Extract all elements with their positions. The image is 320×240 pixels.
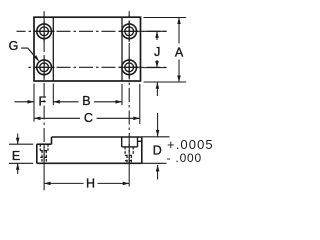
- center line solid segment right (side view): [128, 144, 130, 165]
- hole top-right outer: [122, 24, 137, 39]
- side view slot left wall: [121, 137, 123, 147]
- dim D top outside arrow: [157, 113, 159, 136]
- crosshair hole top-right: [119, 30, 140, 32]
- center line vertical right column: [128, 12, 130, 163]
- dim A bottom arrowhead: [177, 76, 181, 83]
- svg-text:F: F: [38, 95, 46, 109]
- svg-text:J: J: [154, 45, 160, 59]
- gap arrow below top view pointing up: [156, 82, 158, 96]
- crosshair hole bottom-right: [119, 66, 140, 68]
- dim D bottom extension line: [142, 162, 167, 164]
- G leader line: [21, 48, 38, 60]
- dim H right extension line: [128, 165, 130, 187]
- dim J top arrowhead: [155, 31, 159, 38]
- dim A line lower segment: [178, 60, 180, 83]
- center line horizontal top row: [17, 30, 167, 32]
- dim A top arrowhead: [177, 18, 181, 25]
- dim J bottom arrowhead: [155, 61, 159, 68]
- dim J bottom extension solid segment: [143, 67, 167, 69]
- dim D bottom outside arrow: [157, 165, 159, 180]
- dim H line left segment: [44, 182, 83, 184]
- dim A line upper segment: [178, 18, 180, 44]
- dim B arrowhead at left pointing left: [53, 100, 60, 104]
- dim D top extension line: [142, 136, 170, 138]
- dim A bottom extension line: [144, 81, 187, 83]
- dim H right arrowhead: [123, 182, 130, 186]
- svg-text:C: C: [84, 111, 93, 125]
- svg-text:D: D: [153, 143, 162, 157]
- dim H left arrowhead: [44, 182, 51, 186]
- side view right ledge: [138, 140, 142, 142]
- dim E bottom extension line: [9, 162, 33, 164]
- dim B right arrowhead: [116, 100, 123, 104]
- dim B right extension line: [121, 84, 123, 105]
- crosshair hole bottom-left: [34, 66, 55, 68]
- dim C right arrowhead: [133, 117, 140, 121]
- hole bottom-left inner: [40, 63, 49, 72]
- hole top-right inner: [125, 27, 134, 36]
- hole bottom-left outer: [37, 60, 52, 75]
- dim C left arrowhead: [34, 117, 41, 121]
- right slot edge line (top view): [121, 17, 123, 81]
- hole bottom-right inner: [125, 63, 134, 72]
- center line stub above rect left: [43, 11, 45, 16]
- left step edge line (top view): [52, 17, 54, 81]
- dim B line left segment: [53, 101, 78, 103]
- hidden hole right bottom row: [125, 160, 133, 162]
- dim C right extension line: [139, 84, 141, 124]
- hole top-left outer: [37, 24, 52, 39]
- side view slot floor: [122, 146, 138, 148]
- center line vertical left column: [43, 12, 45, 163]
- dim B line right segment: [94, 101, 122, 103]
- dim A top extension line: [144, 17, 187, 19]
- center line stub above rect right: [128, 11, 130, 16]
- dim E bottom outside arrow: [17, 163, 19, 174]
- svg-text:E: E: [12, 149, 20, 163]
- hole top-left inner: [40, 27, 49, 36]
- dim C line left segment: [34, 117, 80, 119]
- side view left step: [51, 137, 53, 144]
- dim F right extension line: [52, 84, 54, 106]
- dim F left extension line: [33, 84, 35, 106]
- top view outline: [34, 17, 141, 81]
- hidden hole right inner: [126, 155, 128, 162]
- dim J line lower segment: [156, 60, 158, 68]
- dim F outside stem left: [15, 101, 35, 103]
- side view left tab top: [37, 143, 52, 145]
- dim C line right segment: [97, 117, 140, 119]
- hidden counterbore left outer: [39, 144, 41, 150]
- svg-text:H: H: [86, 176, 95, 190]
- dim E top extension line: [9, 143, 33, 145]
- hidden hole left inner: [41, 151, 43, 163]
- dim H left extension line: [43, 164, 45, 191]
- G leader arrowhead: [34, 55, 40, 62]
- side view right edge: [141, 137, 143, 163]
- dim C left extension continuation: [33, 105, 35, 122]
- side view bottom: [37, 162, 142, 164]
- dim F left arrowhead pointing right: [28, 100, 35, 104]
- center line solid segment left (side view): [43, 146, 45, 162]
- hidden counterbore right outer: [124, 147, 126, 156]
- svg-text:- .000: - .000: [167, 151, 203, 165]
- svg-text:B: B: [82, 94, 90, 108]
- dim J top extension solid segment: [143, 30, 167, 32]
- side view left edge: [36, 144, 38, 163]
- hole bottom-right outer: [122, 60, 137, 75]
- side view slot right wall: [137, 137, 139, 147]
- svg-text:A: A: [175, 46, 184, 60]
- svg-text:+.0005: +.0005: [167, 137, 214, 152]
- crosshair hole top-left: [34, 30, 55, 32]
- svg-text:G: G: [9, 39, 19, 53]
- side view top surface: [52, 136, 142, 138]
- hidden hole left bottom row: [40, 156, 48, 158]
- dim E top outside arrow: [17, 134, 19, 145]
- dim H line right segment: [98, 182, 130, 184]
- center line horizontal bottom row: [28, 66, 167, 68]
- dim J line upper segment: [156, 31, 158, 40]
